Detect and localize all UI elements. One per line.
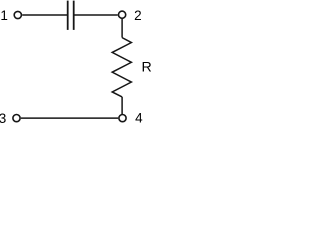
- terminal node 1: [14, 11, 21, 18]
- svg-text:R: R: [142, 60, 152, 76]
- wire capacitor to node2: [74, 14, 118, 16]
- svg-text:1: 1: [0, 8, 8, 23]
- wire node2 to resistor R: [121, 19, 123, 38]
- wire node3 to node4: [21, 117, 118, 119]
- terminal node 2: [119, 11, 126, 18]
- capacitor left plate: [67, 1, 69, 30]
- wire resistor to node 4: [121, 97, 123, 114]
- svg-text:4: 4: [135, 111, 143, 126]
- svg-text:2: 2: [134, 8, 142, 23]
- wire node1 to capacitor: [22, 14, 67, 16]
- svg-text:3: 3: [0, 111, 6, 126]
- resistor R zigzag: [112, 38, 131, 97]
- terminal node 4: [119, 115, 126, 122]
- terminal node 3: [13, 115, 20, 122]
- capacitor right plate: [73, 1, 75, 30]
